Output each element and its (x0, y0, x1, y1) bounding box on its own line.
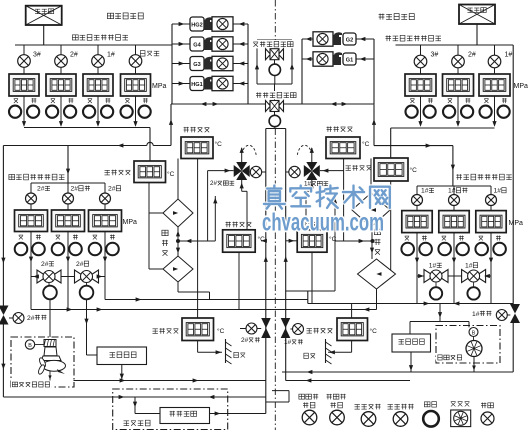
svg-text:HG2: HG2 (191, 23, 203, 29)
svg-text:#: # (45, 261, 49, 268)
svg-text:B: B (28, 343, 32, 349)
valve position circles (48, 283, 50, 286)
svg-text:#: # (469, 262, 473, 269)
thruster device (44, 340, 56, 347)
svg-text:MPa: MPa (509, 220, 524, 227)
generator cooling trunk left (171, 24, 173, 104)
front SW pump branch 3# (420, 45, 422, 55)
indicator circles open/close rear SW (14, 98, 18, 100)
svg-text:MPa: MPa (514, 83, 529, 90)
svg-text:MPa: MPa (152, 83, 167, 90)
thermo valve 1#调温阀 (320, 170, 344, 172)
front SW pump manifold (396, 44, 514, 46)
svg-text:°C: °C (215, 140, 223, 148)
label 回水连通阀组 (252, 40, 295, 48)
manifold y299.5 (105, 299, 308, 301)
淡水出口 display left (184, 127, 189, 129)
generator module G4 (172, 43, 190, 45)
淡水进口 display left (226, 222, 231, 224)
艏侧推舱 box (436, 326, 500, 364)
rear SW pump branch 1# (97, 45, 99, 55)
svg-text:HG1: HG1 (191, 82, 203, 88)
left cooler diamonds (177, 159, 179, 200)
svg-text:°C: °C (362, 140, 370, 148)
rear SW collector to seawater-inlet display (24, 127, 150, 129)
generator cooling trunk right (301, 39, 303, 104)
FW pump feed left (67, 146, 69, 184)
svg-text:3#: 3# (431, 52, 439, 59)
svg-text:#: # (80, 261, 84, 268)
S link near centerline bottom (266, 401, 289, 403)
right border vertical (512, 45, 514, 304)
海水出口 display bottom left (153, 328, 158, 330)
left riser x171 (170, 104, 172, 146)
svg-text:#: # (112, 186, 116, 193)
svg-text:1#: 1# (505, 52, 513, 59)
right cooler feed x390.7 (390, 181, 392, 274)
watermark 真空技术网 (264, 186, 390, 209)
svg-text:#: # (497, 188, 501, 195)
label 前机舱海水冷却泵 (386, 35, 392, 37)
front SW pump branch 1# (494, 45, 496, 55)
thermo valve 2#调温阀 (208, 170, 234, 172)
instrument B right (469, 328, 478, 337)
机舱设备 left (97, 347, 147, 365)
FW pump branch 1#艉 (416, 186, 418, 195)
svg-text:3#: 3# (33, 52, 41, 59)
legend 运行 (481, 402, 486, 404)
svg-text:chvacuum.com: chvacuum.com (262, 209, 384, 237)
trunk right of centerline (285, 129, 287, 381)
generator module HG2 (172, 23, 190, 25)
svg-text:°C: °C (167, 170, 175, 178)
svg-text:#: # (433, 262, 437, 269)
侧推进设备舱 box (11, 337, 74, 387)
legend 自动监控 (388, 404, 393, 406)
manifold y309.5 (31, 309, 377, 311)
left crosstie y145.5 (3, 145, 146, 147)
svg-text:G2: G2 (346, 37, 353, 43)
svg-text:#: # (288, 339, 292, 346)
svg-text:°C: °C (217, 327, 225, 335)
svg-text:#: # (31, 315, 35, 322)
svg-text:°C: °C (410, 166, 418, 174)
fan / thruster motor (466, 341, 482, 357)
sea chest (front) 海底门 (459, 5, 495, 25)
centerline dash-dot lower (274, 129, 276, 430)
海水出口 display bottom right (307, 328, 312, 330)
feed line to bow thruster room (439, 304, 441, 322)
pump circle 2 (269, 115, 280, 126)
svg-text:°C: °C (370, 327, 378, 335)
svg-text:#: # (213, 180, 217, 187)
svg-text:MPa: MPa (123, 219, 138, 226)
label 前发电机舱 (379, 14, 385, 16)
right cooler diamonds (370, 159, 372, 194)
svg-text:2#: 2# (468, 52, 476, 59)
svg-text:G1: G1 (346, 57, 353, 63)
left cooler feed x149 (148, 182, 150, 269)
FW pump branch 2#艉 (30, 183, 32, 193)
front SW pump branch 2# (457, 45, 459, 55)
淡水出口 display right (327, 126, 332, 128)
FW pump branch 2#艏 (104, 183, 106, 193)
label 供水连通阀组 (255, 91, 298, 99)
generator module G2 (302, 38, 313, 40)
generator module G1 (302, 58, 313, 60)
FW pump branch 2#备用 (67, 183, 69, 193)
svg-text:#: # (425, 188, 429, 195)
机舱设备 right (392, 334, 431, 352)
left cooler bottom drop (177, 282, 179, 292)
return line y372 (282, 371, 513, 373)
trunk left of centerline (265, 129, 267, 414)
label 后发电机舱 (107, 13, 113, 18)
FW pump branch 1#艏 (490, 186, 492, 195)
2#供水 (0, 306, 9, 316)
generator module HG1 (172, 83, 190, 85)
rear SW pump manifold (15, 44, 172, 46)
svg-text:1#: 1# (107, 52, 115, 59)
generator module G3 (172, 63, 190, 65)
svg-text:#: # (74, 186, 78, 193)
label 中冷器 vertical (162, 230, 168, 235)
svg-text:#: # (245, 337, 249, 344)
return line y380.5 left (74, 380, 266, 382)
supply crossover valve (266, 101, 271, 112)
淡水进口 display right (298, 222, 303, 224)
svg-text:#: # (476, 311, 480, 318)
rear SW pump branch harbor (135, 45, 137, 55)
legend 后中冷分站 (299, 394, 305, 399)
legend 前中冷分站 (327, 394, 332, 396)
AC room 空调机舱 (113, 389, 228, 430)
right riser x374 (373, 105, 375, 146)
return line y380.5 right (286, 380, 410, 382)
sea chest (rear) 海底门 (26, 6, 62, 25)
svg-text:#: # (452, 188, 456, 195)
legend 人工遥控 (355, 404, 360, 406)
return isolation bowties 2#回水 1#回水 (261, 318, 271, 328)
supply main y104 (171, 103, 374, 105)
bottom feed y397 (2, 396, 4, 398)
svg-text:#: # (41, 186, 45, 193)
rear SW pump branch 3# (23, 45, 25, 55)
legend 消音 (424, 402, 430, 407)
label 中冷器 vertical right (374, 229, 380, 234)
svg-text:B: B (472, 330, 476, 336)
svg-text:G3: G3 (193, 62, 200, 68)
instrument B (25, 340, 34, 349)
legend 报警器 (451, 401, 456, 403)
right cooler bottom drop (376, 289, 378, 310)
chiller 冷水机组 (134, 397, 136, 414)
海水进口 display left (105, 169, 110, 171)
svg-text:G4: G4 (193, 43, 201, 49)
pump circle (269, 64, 280, 75)
right crosstie y145.6 (374, 145, 453, 147)
return crossover valve (266, 49, 271, 60)
svg-text:2#: 2# (70, 52, 78, 59)
海水进口 display right (346, 165, 351, 167)
left border vertical (2, 146, 4, 307)
return crossover loop (257, 39, 292, 41)
label 后机舱海水冷却泵 (72, 35, 78, 40)
indicator circles open/close front SW (410, 98, 414, 100)
centerline dash-dot top (274, 0, 276, 40)
label 后机舱淡水冷却泵 (9, 174, 15, 179)
front SW collector (391, 127, 495, 129)
rear SW pump branch 2# (60, 45, 62, 55)
label 前机舱淡水冷却泵 (456, 174, 462, 176)
FW pump branch 1#备用 (453, 186, 455, 195)
